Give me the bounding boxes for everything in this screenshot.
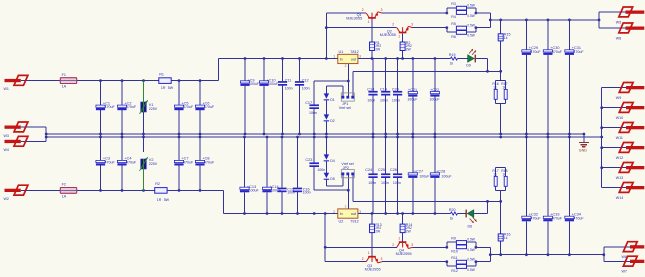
svg-text:R9: R9: [451, 236, 456, 240]
diode D5: [324, 173, 335, 181]
capacitor C7 (470uF): [174, 157, 194, 166]
svg-text:0.5W: 0.5W: [467, 248, 474, 252]
svg-text:C24: C24: [365, 168, 372, 172]
svg-text:1k: 1k: [502, 86, 506, 90]
resistor R16 (1k): [498, 233, 510, 241]
svg-text:W9: W9: [616, 96, 621, 100]
svg-text:470uF: 470uF: [552, 216, 563, 220]
connector W2: [4, 185, 28, 201]
wire: Q1 base lead: [371, 19, 373, 59]
wire: varistor V1 green lead: [143, 81, 145, 102]
svg-text:1A: 1A: [62, 85, 67, 89]
wire: U2 output line: [358, 201, 488, 213]
wire: C2/C4 column: [121, 81, 123, 191]
svg-text:1: 1: [345, 204, 347, 208]
voltage regulator U2 (7912): [333, 204, 361, 223]
resistor pair R9/R10 (0.5W): [447, 236, 476, 253]
svg-text:C19: C19: [380, 87, 387, 91]
junction dots GND bus upper: [45, 133, 586, 136]
svg-text:100uF: 100uF: [441, 175, 452, 179]
connector W11: [616, 123, 645, 140]
capacitor C19 (100n): [380, 87, 390, 102]
svg-text:In: In: [340, 212, 343, 216]
wire: W9-W14 ground column: [602, 88, 626, 188]
svg-text:MJE2955: MJE2955: [365, 268, 381, 272]
svg-text:1R: 1R: [161, 86, 166, 90]
LED D9 (green): [466, 49, 476, 68]
wire: C16 column: [297, 137, 299, 214]
svg-text:R19: R19: [449, 53, 456, 57]
capacitor C26 (100n): [390, 168, 402, 185]
junction dots GND bus lower: [45, 136, 603, 139]
svg-text:C12: C12: [302, 78, 309, 82]
wire: Q3 emitter to R11/R12 pair: [382, 261, 447, 263]
svg-text:W1: W1: [4, 87, 9, 91]
transistor Q3 (MJE2955): [362, 251, 383, 272]
connector W1: [4, 75, 28, 91]
wire: top raw rail F1 to R1: [77, 80, 159, 82]
svg-text:R20: R20: [449, 208, 456, 212]
capacitor C1 (470uF): [96, 101, 116, 110]
svg-text:3: 3: [359, 54, 361, 58]
svg-text:W10: W10: [616, 116, 623, 120]
wire: Q3 base lead: [371, 214, 373, 256]
junction dots -V rail: [489, 253, 605, 256]
svg-text:MJE3055: MJE3055: [380, 33, 396, 37]
svg-text:100n: 100n: [381, 181, 389, 185]
svg-text:2: 2: [392, 243, 394, 247]
wire: W2 to fuse F2 (raw - input): [21, 189, 61, 191]
wire: U1 output line: [358, 59, 488, 72]
wire: raw rail to U2 input: [223, 213, 337, 215]
wire: varistor V2 green lead: [143, 169, 145, 190]
svg-text:100n: 100n: [303, 191, 311, 195]
voltage regulator U1 (7812): [333, 50, 361, 68]
capacitor C9 (100uF): [240, 78, 260, 86]
svg-text:3: 3: [381, 257, 383, 261]
wire: Q2 base lead: [402, 33, 404, 58]
svg-text:100n: 100n: [317, 168, 325, 172]
svg-text:100n: 100n: [302, 86, 310, 90]
svg-text:3: 3: [381, 8, 383, 12]
wire: C9 column: [244, 59, 246, 135]
junction dots bottom pair wires: [324, 246, 477, 263]
svg-text:out: out: [351, 212, 356, 216]
diode D4: [324, 154, 335, 162]
svg-text:R2: R2: [155, 182, 160, 186]
wire: Q4 base lead: [402, 214, 404, 242]
svg-text:470uF: 470uF: [126, 160, 137, 164]
junction dots Q pair wires: [325, 12, 477, 29]
svg-text:D5: D5: [330, 177, 335, 181]
svg-text:U1: U1: [339, 50, 344, 54]
svg-text:100uF: 100uF: [268, 82, 279, 86]
wire: C29/C32 column: [525, 20, 527, 255]
svg-text:R1: R1: [159, 72, 164, 76]
svg-text:100uF: 100uF: [249, 82, 260, 86]
wire: Vref select line (bottom): [353, 175, 501, 201]
resistor R13 (2R2 2W): [370, 223, 382, 234]
capacitor C27 (100uF): [408, 169, 430, 178]
wire: C11 column: [282, 59, 284, 135]
transistor Q2 (MJE3055): [380, 23, 413, 39]
ground GND: [579, 134, 589, 152]
wire: C6/C8 column: [199, 81, 201, 191]
svg-text:0.5W: 0.5W: [467, 238, 474, 242]
svg-text:C18: C18: [367, 87, 374, 91]
wire: bottom pair outputs join to -V rail: [476, 247, 490, 261]
junction dots W9-W14 column: [600, 106, 603, 169]
junction dots Vref top: [347, 70, 502, 83]
svg-text:R4: R4: [451, 15, 456, 19]
svg-text:470uF: 470uF: [105, 160, 116, 164]
svg-text:R11: R11: [451, 256, 457, 260]
wire: C15 column: [281, 137, 283, 214]
capacitor C20 (100n): [392, 87, 402, 102]
svg-text:Vref sel: Vref sel: [339, 106, 352, 110]
svg-text:3: 3: [411, 243, 413, 247]
svg-text:3: 3: [411, 23, 413, 27]
svg-text:470uF: 470uF: [573, 216, 584, 220]
svg-text:1R: 1R: [157, 198, 162, 202]
wire: C10 column: [263, 59, 265, 135]
wire: GND bus lower: [46, 136, 602, 138]
connector W8: [622, 242, 645, 259]
svg-text:W4: W4: [4, 148, 9, 152]
junction dots bottom raw rail: [99, 189, 201, 192]
resistor R19 (1k): [449, 53, 458, 65]
resistor R14 (2R2 2W): [400, 223, 412, 234]
svg-text:0.5W: 0.5W: [467, 34, 474, 38]
capacitor C12 (100n): [295, 78, 310, 90]
capacitor C24 (100n): [365, 168, 377, 185]
svg-text:1: 1: [398, 34, 400, 38]
svg-text:GND: GND: [579, 148, 587, 152]
wire: bottom raw rail F2 to R2: [77, 189, 155, 191]
capacitor C2 (470uF): [117, 101, 137, 110]
varistor V2 (225V): [140, 157, 158, 171]
capacitor C25 (100n): [378, 168, 390, 185]
wire: V1/V2 column: [143, 81, 145, 190]
transistor Q1 (MJE3055): [346, 8, 382, 24]
wire: raw rail to U1 input: [219, 58, 338, 60]
junction dots Vref bottom: [347, 189, 502, 203]
resistor pair R11/R12 (0.5W): [447, 256, 476, 273]
connector W12: [616, 143, 645, 160]
connector W7: [622, 256, 645, 273]
svg-text:470uF: 470uF: [183, 160, 194, 164]
svg-text:D4: D4: [330, 159, 335, 163]
svg-text:R6: R6: [451, 35, 456, 39]
svg-text:2W: 2W: [406, 230, 412, 234]
svg-text:R5: R5: [451, 22, 456, 26]
svg-text:R10: R10: [451, 249, 458, 253]
diode D1: [324, 93, 335, 101]
connector W3: [4, 122, 28, 138]
connector W9: [616, 83, 645, 100]
wire: C31/C34 column: [568, 20, 570, 255]
resistor pair R3/R4 (0.5W): [447, 2, 476, 19]
svg-text:C25: C25: [378, 168, 385, 172]
capacitor C28 (100uF): [430, 169, 452, 178]
jumper JP2 (Vref sel): [341, 162, 354, 178]
capacitor C17 (100n): [305, 101, 319, 115]
capacitor C31 (470uF): [565, 46, 585, 55]
svg-text:2W: 2W: [406, 47, 412, 51]
capacitor C21 (100uF): [407, 88, 418, 102]
svg-text:0.5W: 0.5W: [467, 14, 474, 18]
svg-text:0.5W: 0.5W: [467, 257, 474, 261]
capacitor C23 (100n): [305, 158, 325, 172]
resistor pair R17/R18 (1k): [492, 167, 507, 190]
capacitor C3 (470uF): [96, 157, 116, 166]
resistor R2 (1R 5W): [155, 182, 170, 202]
wire: raw feed dropper to Q3/Q4 collectors: [325, 214, 397, 262]
wire: Q4 emitter to R9/R10 pair: [413, 246, 447, 248]
capacitor C34 (470uF): [565, 213, 585, 222]
svg-text:+C27: +C27: [414, 169, 423, 173]
svg-text:1: 1: [398, 237, 400, 241]
junction dots U2 input line: [243, 212, 436, 215]
svg-text:R3: R3: [451, 2, 456, 6]
svg-text:1A: 1A: [62, 195, 67, 199]
wire: C19/C25 column: [385, 59, 387, 214]
capacitor C8 (470uF): [195, 157, 215, 166]
svg-text:100n: 100n: [309, 111, 317, 115]
capacitor C5 (470uF): [174, 101, 194, 110]
svg-text:D6: D6: [468, 224, 473, 228]
svg-text:1k: 1k: [504, 36, 508, 40]
svg-text:100n: 100n: [392, 99, 400, 103]
svg-text:470uF: 470uF: [573, 50, 584, 54]
svg-text:0.5W: 0.5W: [467, 3, 474, 7]
wire: C12 column: [299, 59, 301, 135]
svg-text:1k: 1k: [450, 217, 454, 221]
svg-text:3: 3: [359, 210, 361, 214]
svg-text:D1: D1: [330, 98, 335, 102]
svg-text:0.5W: 0.5W: [467, 23, 474, 27]
svg-text:470uF: 470uF: [552, 50, 563, 54]
svg-text:100n: 100n: [380, 99, 388, 103]
svg-text:W2: W2: [4, 197, 9, 201]
LED D6 (green): [466, 210, 477, 229]
wire: Q1 emitter to R3/R4 pair: [382, 12, 447, 14]
svg-text:+C22: +C22: [430, 88, 439, 92]
svg-text:2: 2: [333, 210, 335, 214]
svg-text:2: 2: [362, 257, 364, 261]
wire: C14 column: [266, 137, 268, 214]
transistor Q4 (MJE2955): [392, 237, 413, 257]
svg-text:470uF: 470uF: [105, 105, 116, 109]
svg-text:MJE2955: MJE2955: [396, 252, 412, 256]
svg-text:100n: 100n: [285, 86, 293, 90]
resistor R1 (1R 5W): [159, 72, 174, 90]
capacitor C15 (100n): [277, 188, 295, 195]
capacitor C22 (100uF): [429, 88, 440, 102]
wire: top raw rail R1 to corner: [171, 59, 218, 81]
svg-text:C20: C20: [392, 87, 399, 91]
svg-text:1k: 1k: [493, 173, 497, 177]
svg-text:100uF: 100uF: [429, 98, 440, 102]
fuse F2: [60, 183, 76, 199]
svg-text:0.5W: 0.5W: [467, 268, 474, 272]
capacitor C29 (470uF): [522, 46, 542, 55]
junction dots U1 input line: [244, 57, 437, 60]
resistor R2 base (2R2 2W): [400, 41, 412, 52]
resistor R15 (1k): [498, 33, 510, 41]
svg-text:W12: W12: [616, 156, 623, 160]
svg-text:470uF: 470uF: [530, 216, 541, 220]
svg-text:W14: W14: [616, 196, 623, 200]
svg-text:W5: W5: [616, 20, 621, 24]
svg-text:5W: 5W: [164, 198, 170, 202]
capacitor C33 (470uF): [543, 213, 563, 222]
svg-text:470uF: 470uF: [530, 50, 541, 54]
wire: C1/C3 column: [100, 81, 102, 191]
svg-text:225V: 225V: [149, 107, 158, 111]
wire: diode chain D4/D5 to bus: [326, 137, 343, 186]
svg-text:1k: 1k: [450, 62, 454, 66]
connector W13: [616, 163, 645, 180]
svg-text:W11: W11: [616, 136, 623, 140]
wire: R16 divider chain: [500, 191, 502, 255]
wire: C13 column: [244, 137, 246, 214]
junction dots top raw rail: [99, 79, 201, 82]
svg-text:F1: F1: [62, 73, 66, 77]
connector W14: [616, 183, 645, 200]
svg-text:1k: 1k: [502, 173, 506, 177]
svg-text:1k: 1k: [504, 236, 508, 240]
connector W5: [616, 7, 645, 24]
resistor pair R5/R6 (0.5W): [447, 22, 476, 39]
resistor R1 base (2R2 2W): [370, 41, 382, 52]
junction dots +V rail: [489, 19, 600, 22]
svg-text:W6: W6: [616, 36, 621, 40]
svg-text:D9: D9: [466, 64, 471, 68]
resistor R20 (1k): [449, 208, 458, 220]
svg-text:D2: D2: [330, 119, 335, 123]
diode D2: [324, 114, 335, 122]
svg-text:In: In: [340, 58, 343, 62]
capacitor C13 (100uF): [240, 185, 260, 193]
wire: W3/W4 tie to bus: [21, 127, 46, 141]
svg-text:+C21: +C21: [408, 88, 417, 92]
svg-text:2: 2: [362, 8, 364, 12]
svg-text:2: 2: [345, 64, 347, 68]
wire: C22/C28 column: [434, 59, 436, 214]
svg-text:C17: C17: [305, 101, 312, 105]
capacitor C11 (100n): [278, 78, 293, 90]
svg-text:225V: 225V: [149, 162, 158, 166]
capacitor C4 (470uF): [117, 157, 137, 166]
svg-text:100uF: 100uF: [407, 98, 418, 102]
connector W4: [4, 136, 28, 152]
wire: C5/C7 column: [178, 81, 180, 191]
svg-text:C26: C26: [390, 168, 397, 172]
svg-text:470uF: 470uF: [183, 105, 194, 109]
wire: C30/C33 column: [547, 20, 549, 255]
svg-text:7812: 7812: [350, 50, 358, 54]
svg-text:C23: C23: [305, 158, 312, 162]
wire: U2 ground pin net: [314, 137, 348, 209]
wire: R15 divider chain: [500, 20, 502, 134]
wire: W1 to fuse F1 (raw + input): [21, 80, 61, 82]
wire: +V output rail to W5/W6: [490, 12, 625, 28]
svg-text:100n: 100n: [367, 99, 375, 103]
svg-text:U2: U2: [339, 219, 344, 223]
svg-text:W7: W7: [622, 270, 627, 274]
svg-text:5W: 5W: [168, 86, 174, 90]
connector W6: [616, 23, 645, 40]
capacitor C30 (470uF): [543, 46, 563, 55]
svg-text:1: 1: [368, 20, 370, 24]
svg-text:+C28: +C28: [436, 169, 445, 173]
svg-text:470uF: 470uF: [204, 105, 215, 109]
wire: C18/C24 column: [372, 59, 374, 214]
svg-text:C11: C11: [285, 78, 292, 82]
svg-text:1k: 1k: [493, 86, 497, 90]
svg-text:MJE3055: MJE3055: [346, 17, 362, 21]
svg-text:F2: F2: [62, 183, 66, 187]
wire: C20/C26 column: [397, 59, 399, 214]
capacitor C18 (100n): [367, 87, 377, 102]
wire: Q2 emitter to R5/R6 pair: [412, 27, 447, 29]
svg-text:W3: W3: [4, 134, 9, 138]
svg-text:2: 2: [392, 23, 394, 27]
wire: pair outputs join to +V rail: [476, 13, 490, 28]
svg-text:JP2: JP2: [343, 166, 349, 170]
capacitor C6 (470uF): [195, 101, 215, 110]
wire: bottom raw rail R2 to corner: [167, 190, 223, 213]
connector W10: [616, 103, 645, 120]
capacitor C14 (100uF): [262, 185, 282, 193]
svg-text:470uF: 470uF: [204, 160, 215, 164]
svg-text:7912: 7912: [350, 219, 358, 223]
capacitor C16 (100n): [293, 188, 311, 195]
capacitor C32 (470uF): [522, 213, 542, 222]
svg-text:100n: 100n: [368, 181, 376, 185]
wire: U1 ground pin net: [314, 64, 348, 134]
wire: diode chain D1/D2 to bus: [326, 86, 343, 134]
svg-text:100n: 100n: [393, 181, 401, 185]
svg-text:1: 1: [368, 251, 370, 255]
varistor V1 (225V): [140, 100, 158, 114]
fuse F1: [60, 73, 76, 89]
capacitor C10 (100uF): [259, 78, 279, 86]
svg-text:R12: R12: [451, 269, 458, 273]
wire: Vref select line (top): [353, 71, 501, 96]
resistor pair R16/R17 (1k): [492, 80, 507, 103]
wire: C21/C27 column: [412, 59, 414, 214]
jumper JP1 (Vref sel): [339, 93, 355, 110]
wire: GND bus upper: [46, 133, 584, 135]
svg-text:out: out: [351, 58, 356, 62]
svg-text:100uF: 100uF: [419, 175, 430, 179]
svg-text:100uF: 100uF: [249, 189, 260, 193]
svg-text:470uF: 470uF: [126, 105, 137, 109]
svg-text:1: 1: [333, 54, 335, 58]
wire: -V output rail to W7/W8: [490, 247, 630, 262]
wire: raw feed riser to Q1/Q2 collectors: [326, 13, 396, 59]
svg-text:W13: W13: [616, 176, 623, 180]
